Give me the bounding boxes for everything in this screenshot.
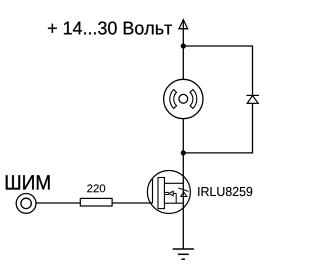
wire motor bottom to node B and down to transistor drain / source / ground (182, 119, 184, 249)
transistor Q1 drain bar (164, 182, 183, 184)
diode VD1 (247, 95, 260, 103)
transistor Q1 channel plate (158, 178, 164, 209)
wire node A to motor top (182, 46, 184, 79)
motor M1 (164, 79, 203, 118)
transistor Q1 body arrow (164, 191, 176, 203)
label +14...30 Volt supply (48, 21, 172, 34)
label 220 resistor value (87, 184, 105, 192)
power arrow VCC (178, 20, 188, 29)
transistor Q1 source bar (164, 202, 183, 204)
label IRLU8259 (198, 187, 252, 196)
transistor Q1 MOSFET body circle (147, 171, 190, 214)
wire diode bottom to node B (183, 103, 252, 152)
resistor R1 body (80, 198, 112, 206)
transistor Q1 body diode (178, 188, 188, 197)
label PWM input (6, 175, 50, 189)
wire supply to node A (182, 20, 184, 46)
wire connector to resistor (36, 202, 80, 204)
ground (173, 249, 194, 259)
connector X1 pin (16, 194, 36, 214)
wire resistor to gate (112, 202, 152, 204)
node A junction dot (181, 43, 186, 48)
wire node A to diode top (183, 46, 252, 95)
node B junction dot (181, 150, 186, 155)
transistor Q1 gate bar (152, 179, 154, 203)
